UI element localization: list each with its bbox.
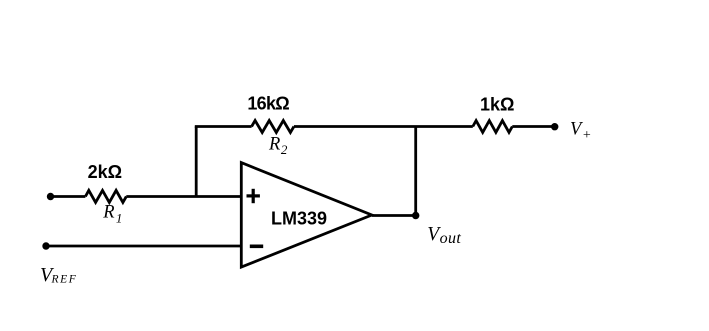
wire input to R1 — [51, 195, 86, 198]
node Vout junction dot — [412, 212, 419, 219]
wire op-amp output — [372, 214, 416, 217]
op-amp U1 comparator triangle — [241, 163, 371, 268]
wire R2 to output node — [294, 125, 473, 128]
wire top left segment — [195, 125, 252, 128]
wire VREF to inverting input — [46, 245, 241, 248]
svg-text:+: + — [582, 128, 591, 143]
svg-text:16kΩ: 16kΩ — [247, 93, 289, 113]
node VREF input terminal dot — [42, 242, 49, 249]
svg-text:2kΩ: 2kΩ — [88, 162, 122, 182]
wire vertical output to feedback — [414, 127, 417, 216]
pin - inverting input mark — [250, 245, 263, 249]
svg-text:R: R — [102, 203, 114, 223]
pin + non-inverting input mark — [247, 194, 260, 197]
resistor R3 pull-up 1kOhm zigzag — [473, 121, 513, 133]
node R1 input terminal dot — [47, 193, 54, 200]
svg-text:1: 1 — [116, 211, 123, 226]
svg-text:LM339: LM339 — [271, 209, 327, 229]
resistor R2 zigzag — [252, 121, 294, 133]
svg-text:1kΩ: 1kΩ — [480, 94, 514, 114]
svg-text:2: 2 — [281, 142, 288, 157]
svg-text:out: out — [440, 230, 462, 247]
resistor R1 zigzag — [85, 190, 126, 202]
svg-text:R: R — [268, 134, 280, 154]
wire R1 to non-inverting input — [126, 195, 241, 198]
svg-text:REF: REF — [51, 274, 78, 286]
node V+ terminal dot — [551, 123, 558, 130]
wire 1k to V+ terminal — [512, 125, 554, 128]
node A junction feedback to + input, wire vertical — [195, 127, 198, 197]
